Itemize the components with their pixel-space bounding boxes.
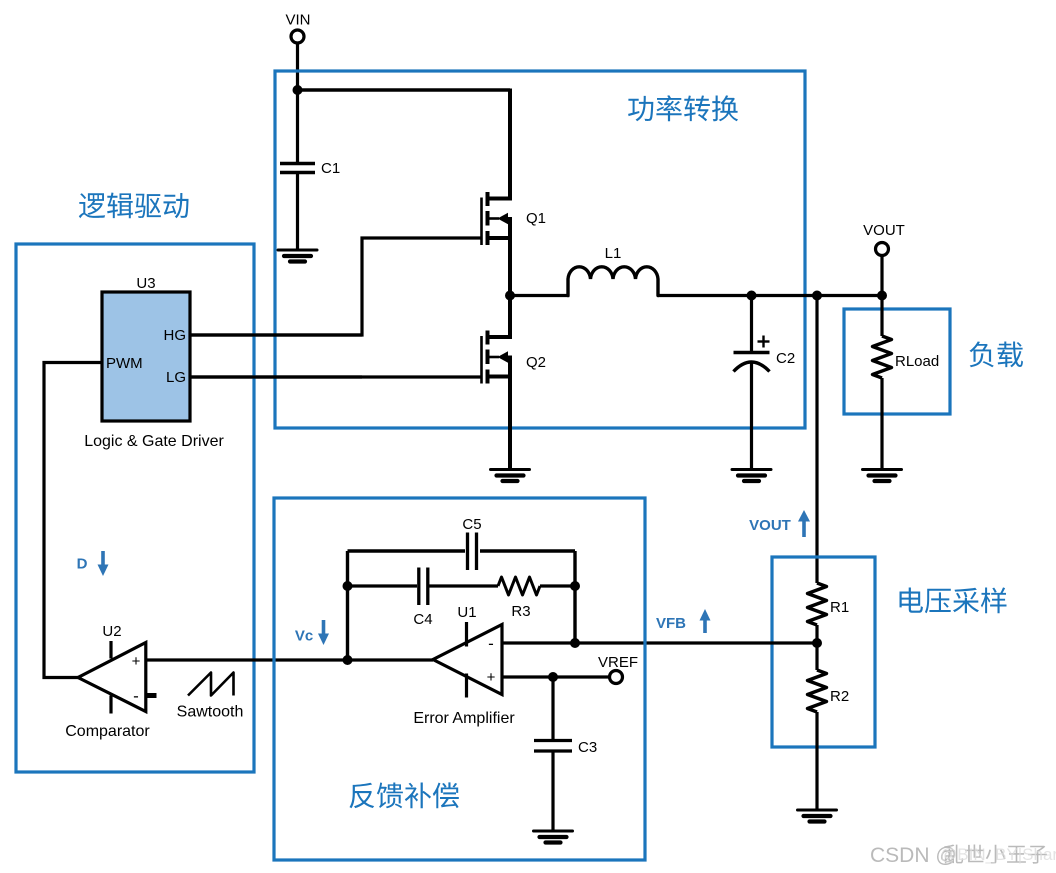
svg-text:VFB: VFB bbox=[656, 615, 686, 632]
node VFB bbox=[812, 625, 822, 670]
ground below C2 bbox=[732, 470, 771, 482]
VIN terminal bbox=[285, 12, 310, 44]
wire VIN junction to Q1 drain bbox=[296, 89, 510, 201]
svg-text:R2: R2 bbox=[830, 688, 849, 705]
IC U3 logic & gate driver bbox=[84, 275, 224, 450]
node C2 tap bbox=[747, 291, 757, 301]
wire VOUT node to RLoad bbox=[880, 296, 883, 337]
wire VIN down to C1 bbox=[296, 43, 299, 163]
svg-text:Error Amplifier: Error Amplifier bbox=[413, 710, 515, 727]
svg-text:PWM: PWM bbox=[106, 355, 143, 372]
node VOUT junction bbox=[877, 291, 887, 301]
power stage box 功率转换 bbox=[275, 71, 805, 428]
wire comp left vertical bbox=[346, 551, 349, 660]
capacitor C4 bbox=[348, 568, 499, 629]
load box 负载 bbox=[844, 309, 1023, 414]
D arrow label bbox=[77, 551, 109, 576]
svg-text:C1: C1 bbox=[321, 160, 340, 177]
wire switch node to L1 bbox=[510, 294, 570, 297]
logic box 逻辑驱动 bbox=[16, 193, 254, 773]
Vc arrow label bbox=[295, 620, 329, 645]
ground below C3 bbox=[534, 831, 573, 843]
svg-text:HG: HG bbox=[164, 327, 187, 344]
wire Q1 source to switch node bbox=[508, 217, 512, 296]
VOUT terminal bbox=[863, 222, 905, 296]
svg-text:Sawtooth: Sawtooth bbox=[177, 704, 244, 721]
svg-text:U2: U2 bbox=[102, 623, 121, 640]
capacitor C1 bbox=[280, 160, 340, 177]
svg-text:VOUT: VOUT bbox=[749, 517, 791, 534]
resistor R3 bbox=[498, 577, 575, 620]
node comp right lower bbox=[570, 638, 580, 648]
wire feedback tap down to R1 bbox=[815, 296, 818, 584]
resistor R1 bbox=[808, 583, 850, 625]
node feedback tap bbox=[812, 291, 822, 301]
capacitor C2 (polarized) bbox=[734, 336, 796, 372]
capacitor C5 bbox=[348, 516, 576, 570]
svg-text:U3: U3 bbox=[136, 275, 155, 292]
VFB arrow label bbox=[656, 609, 711, 633]
feedback box 反馈补偿 bbox=[274, 498, 645, 860]
wire U3 LG out bbox=[190, 375, 362, 378]
node compensation left lower bbox=[343, 655, 353, 665]
ground below Q2 bbox=[491, 470, 530, 482]
ground below C1 bbox=[278, 250, 317, 262]
node VIN junction bbox=[293, 85, 303, 95]
svg-text:LG: LG bbox=[166, 369, 186, 386]
svg-text:C3: C3 bbox=[578, 739, 597, 756]
svg-text:Vc: Vc bbox=[295, 628, 313, 645]
transistor Q1 bbox=[482, 192, 547, 245]
watermark bbox=[870, 844, 1056, 867]
svg-text:C2: C2 bbox=[776, 350, 795, 367]
wire switch node to Q2 drain bbox=[508, 296, 512, 340]
svg-text:@BIN_BY|Share: @BIN_BY|Share bbox=[940, 845, 1056, 864]
ground below R2 bbox=[798, 810, 837, 822]
wire RLoad to ground bbox=[880, 378, 883, 470]
sense box 电压采样 bbox=[772, 557, 1007, 747]
svg-text:+: + bbox=[487, 669, 496, 686]
svg-text:R3: R3 bbox=[511, 603, 530, 620]
wire LG to Q2 gate bbox=[190, 375, 481, 378]
wire error amp out to comparator + bbox=[146, 658, 433, 661]
VREF terminal bbox=[598, 654, 638, 684]
wire Q2 source to ground bbox=[508, 356, 512, 470]
node VREF branch bbox=[548, 672, 558, 682]
svg-text:-: - bbox=[133, 687, 139, 706]
wire U3 HG out bbox=[190, 333, 362, 336]
svg-text:C5: C5 bbox=[462, 516, 481, 533]
op-amp U1 error amplifier bbox=[413, 604, 515, 727]
svg-text:Q1: Q1 bbox=[526, 210, 546, 227]
wire down to C2 bbox=[750, 296, 753, 352]
resistor RLoad bbox=[873, 336, 940, 378]
wire R2 to ground bbox=[815, 712, 818, 810]
svg-text:Comparator: Comparator bbox=[65, 723, 150, 740]
transistor Q2 bbox=[482, 331, 547, 384]
wire C1 to ground bbox=[296, 174, 299, 250]
wire down to C3 bbox=[551, 677, 554, 739]
svg-text:VREF: VREF bbox=[598, 654, 638, 671]
wire C3 to ground bbox=[551, 752, 554, 831]
wire C2 to ground bbox=[750, 362, 753, 470]
wire VFB to error amp inverting input bbox=[502, 641, 817, 644]
node comp left mid bbox=[343, 581, 353, 591]
svg-text:VOUT: VOUT bbox=[863, 222, 905, 239]
svg-text:D: D bbox=[77, 556, 88, 573]
svg-text:+: + bbox=[132, 653, 141, 670]
inductor L1 bbox=[568, 245, 658, 296]
node comp right mid bbox=[570, 581, 580, 591]
capacitor C3 bbox=[534, 739, 597, 756]
svg-text:U1: U1 bbox=[457, 604, 476, 621]
wire HG to Q1 gate bbox=[190, 238, 481, 335]
svg-text:L1: L1 bbox=[605, 245, 622, 262]
wire comp right vertical bbox=[573, 551, 576, 643]
svg-text:Logic & Gate Driver: Logic & Gate Driver bbox=[84, 433, 224, 450]
ground below RLoad bbox=[863, 470, 902, 482]
VOUT arrow label bbox=[749, 510, 810, 537]
svg-text:C4: C4 bbox=[413, 611, 432, 628]
svg-text:VIN: VIN bbox=[285, 12, 310, 29]
wire comparator output to PWM bbox=[44, 363, 102, 678]
comparator U2 bbox=[65, 623, 150, 740]
comparator - stub bbox=[146, 693, 157, 698]
node switch bbox=[505, 291, 515, 301]
resistor R2 bbox=[808, 670, 850, 712]
svg-text:R1: R1 bbox=[830, 599, 849, 616]
wire U1 + input to VREF bbox=[502, 675, 610, 678]
svg-text:Q2: Q2 bbox=[526, 354, 546, 371]
svg-text:-: - bbox=[488, 634, 494, 653]
wire L1 to VOUT node bbox=[658, 294, 882, 297]
sawtooth symbol bbox=[177, 673, 244, 721]
svg-text:RLoad: RLoad bbox=[895, 353, 939, 370]
